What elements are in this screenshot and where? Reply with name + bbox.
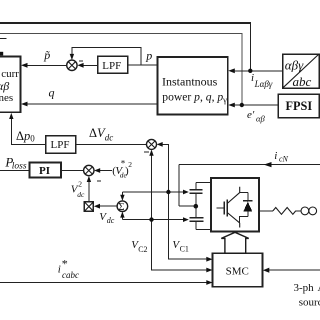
svg-text:LPF: LPF (51, 139, 70, 151)
svg-text:2: 2 (78, 180, 82, 189)
svg-text:p̃: p̃ (43, 48, 50, 62)
svg-text:e′: e′ (247, 109, 255, 121)
svg-text:PI: PI (39, 165, 50, 177)
svg-text:FPSI: FPSI (286, 99, 313, 113)
svg-text:dc: dc (77, 190, 85, 199)
svg-text:nes: nes (0, 92, 13, 104)
svg-text:αβ: αβ (256, 114, 265, 124)
svg-text:abc: abc (293, 74, 312, 89)
svg-text:Σ: Σ (118, 202, 124, 213)
svg-text:Lαβγ: Lαβγ (254, 79, 273, 89)
svg-text:C1: C1 (180, 245, 189, 254)
svg-text:C2: C2 (138, 245, 147, 254)
svg-text:3-ph: 3-ph (294, 282, 315, 294)
svg-text:cabc: cabc (62, 270, 79, 280)
svg-text:*: * (62, 257, 68, 271)
svg-text:dc: dc (107, 216, 115, 225)
svg-text:SMC: SMC (226, 266, 249, 278)
svg-text:LPF: LPF (102, 60, 121, 72)
svg-text:power p, q, pγ: power p, q, pγ (162, 90, 227, 104)
svg-text:i: i (251, 72, 254, 84)
svg-text:p: p (145, 49, 152, 63)
svg-text:i: i (274, 150, 277, 162)
svg-text:source: source (299, 297, 320, 309)
svg-text:loss: loss (12, 162, 27, 172)
svg-text:q: q (49, 86, 55, 100)
svg-text:i: i (58, 264, 61, 276)
svg-text:cN: cN (279, 155, 289, 164)
svg-text:αβ: αβ (0, 79, 9, 93)
svg-text:2: 2 (128, 160, 132, 169)
svg-text:αβγ: αβγ (285, 58, 304, 73)
svg-text:Instantnous: Instantnous (162, 75, 218, 89)
